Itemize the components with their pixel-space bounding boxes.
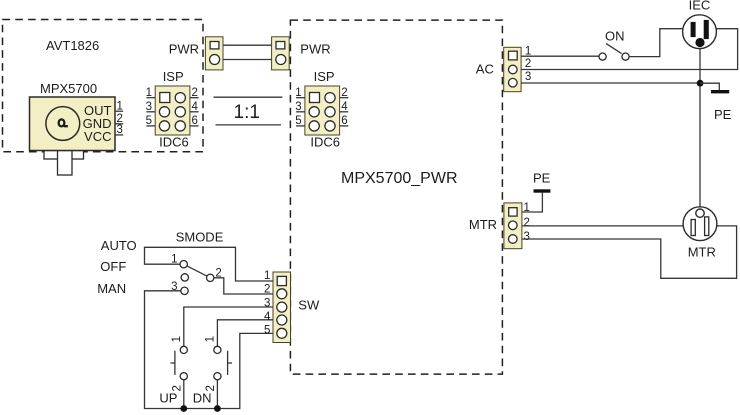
connector ISP J4 [305, 86, 340, 135]
wire AC pin1 to ON switch [521, 55, 599, 57]
ground PE stub [700, 83, 719, 90]
svg-text:2: 2 [524, 217, 530, 229]
svg-text:3: 3 [171, 281, 177, 293]
sensor MPX5700 flange [44, 151, 84, 160]
svg-text:MPX5700: MPX5700 [40, 81, 97, 96]
ISP J4 stubs [296, 98, 348, 126]
svg-text:3: 3 [264, 298, 270, 310]
svg-text:IDC6: IDC6 [310, 134, 340, 149]
svg-text:PWR: PWR [169, 42, 199, 57]
wire DN pin1 to SW pin4 [217, 320, 277, 347]
ISP J3 pin numbers [146, 87, 199, 127]
svg-text:ISP: ISP [314, 69, 335, 84]
svg-text:3: 3 [295, 101, 301, 113]
wire MTR pin2 to socket [522, 225, 683, 227]
MTR pin numbers [524, 202, 530, 243]
svg-text:1: 1 [117, 101, 123, 113]
sensor MPX5700 body [30, 97, 116, 151]
pressure glyph [59, 119, 68, 126]
svg-text:2: 2 [341, 87, 347, 99]
svg-text:5: 5 [264, 325, 270, 337]
wire UP pin1 to SW pin3 [184, 307, 277, 346]
pushbutton DN [214, 346, 232, 380]
svg-text:PE: PE [714, 107, 732, 122]
ground PE bar [534, 189, 551, 192]
svg-text:2: 2 [525, 58, 531, 70]
svg-text:1:1: 1:1 [234, 102, 260, 123]
svg-text:5: 5 [146, 115, 152, 127]
sensor pin 3 stub [115, 134, 123, 136]
junction [697, 80, 704, 87]
svg-text:4: 4 [341, 101, 348, 113]
svg-text:SW: SW [298, 297, 320, 312]
connector PWR J2 [272, 37, 290, 70]
svg-text:1: 1 [264, 270, 270, 282]
ISP J4 pin numbers [295, 87, 348, 127]
svg-text:IEC: IEC [689, 0, 711, 13]
connector AC [504, 47, 521, 91]
svg-text:4: 4 [192, 101, 199, 113]
svg-text:6: 6 [192, 115, 198, 127]
svg-text:SMODE: SMODE [176, 229, 224, 244]
svg-text:MTR: MTR [469, 217, 497, 232]
svg-text:2: 2 [264, 283, 270, 295]
sensor MPX5700 tube [58, 151, 73, 176]
sensor pin 2 stub [115, 123, 123, 125]
module MPX5700_PWR dashed outline [290, 20, 502, 374]
wire IEC pin down to MTR socket [699, 43, 701, 207]
ISP J3 stubs [146, 98, 198, 126]
junction UP [180, 405, 187, 412]
ground PE bar [711, 90, 729, 93]
svg-text:3: 3 [525, 71, 531, 83]
transformer 1:1 bottom line [216, 124, 282, 126]
svg-text:1: 1 [171, 336, 183, 342]
svg-text:1: 1 [171, 254, 177, 266]
svg-text:1: 1 [295, 87, 301, 99]
svg-text:PE: PE [533, 171, 551, 186]
connector SW [273, 272, 291, 343]
svg-text:6: 6 [341, 115, 347, 127]
switch ON [599, 44, 629, 61]
svg-text:3: 3 [146, 101, 152, 113]
sensor port circle [46, 107, 80, 141]
svg-text:2: 2 [215, 268, 221, 280]
module AVT1826 dashed outline [3, 20, 204, 152]
connector PWR J1 [205, 37, 223, 70]
svg-text:UP: UP [159, 391, 177, 406]
svg-text:VCC: VCC [84, 129, 111, 144]
svg-text:1: 1 [146, 87, 152, 99]
wire PWR pin2-pin2 [220, 59, 276, 61]
svg-text:5: 5 [295, 115, 301, 127]
svg-text:IDC6: IDC6 [159, 134, 189, 149]
socket MTR [683, 207, 717, 241]
SW pin numbers [264, 270, 271, 337]
svg-text:4: 4 [264, 311, 271, 323]
socket IEC [683, 15, 717, 49]
svg-text:3: 3 [117, 124, 123, 136]
wire SMODE contact3 down [145, 291, 278, 409]
pushbutton UP [171, 346, 188, 380]
wire SMODE contact1 to SW pin1 [145, 247, 278, 281]
wire AC pin2 to IEC right [521, 29, 738, 70]
wire DN pin2 down [216, 380, 218, 409]
svg-text:DN: DN [193, 391, 212, 406]
svg-text:3: 3 [524, 231, 530, 243]
svg-text:1: 1 [205, 336, 217, 342]
svg-text:AUTO: AUTO [101, 238, 137, 253]
transformer 1:1 top line [214, 96, 283, 98]
svg-text:MAN: MAN [97, 281, 126, 296]
svg-text:MTR: MTR [688, 244, 716, 259]
svg-text:ON: ON [605, 29, 625, 44]
SMODE contact numbers [171, 254, 222, 294]
svg-text:OFF: OFF [100, 259, 126, 274]
svg-text:2: 2 [192, 87, 198, 99]
svg-text:AC: AC [476, 62, 494, 77]
wire ON to IEC [629, 29, 683, 57]
AC pin numbers [525, 46, 531, 84]
wire AC pin3 to PE junction [521, 82, 700, 84]
switch SMODE [180, 261, 214, 295]
wire MTR pin3 wrap to socket right [522, 226, 737, 278]
wire UP pin2 down [183, 380, 185, 409]
connector ISP J3 [155, 86, 190, 135]
svg-text:AVT1826: AVT1826 [46, 38, 99, 53]
wire PWR pin1-pin1 [219, 44, 276, 46]
svg-text:ISP: ISP [163, 69, 184, 84]
svg-text:MPX5700_PWR: MPX5700_PWR [341, 170, 458, 187]
wire SMODE contact2 to SW pin2 [214, 278, 277, 294]
svg-text:PWR: PWR [300, 42, 330, 57]
junction DN [214, 405, 221, 412]
sensor pin 1 stub [115, 110, 123, 112]
wire MTR pin1 to PE [522, 193, 543, 212]
connector MTR [504, 203, 522, 249]
